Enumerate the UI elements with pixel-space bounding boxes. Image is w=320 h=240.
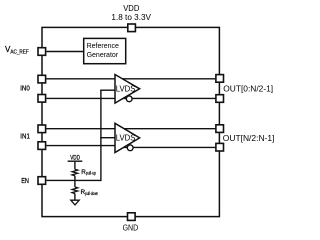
wire IN0 positive line xyxy=(46,78,215,80)
pin IN1 positive xyxy=(38,125,46,133)
VDD rail for pull-up xyxy=(68,155,83,170)
wire OUT row2 negative line output side xyxy=(122,146,215,148)
resistor R_pull-up xyxy=(72,169,78,175)
ground symbol xyxy=(71,200,79,205)
svg-text:IN0: IN0 xyxy=(20,83,30,92)
svg-text:OUT[0:N/2-1]: OUT[0:N/2-1] xyxy=(223,84,273,94)
wire EN vertical bus xyxy=(100,90,102,182)
wire resistor junction xyxy=(74,176,76,187)
pin EN xyxy=(38,177,46,185)
svg-text:GND: GND xyxy=(123,223,139,233)
svg-text:LVDS: LVDS xyxy=(116,85,136,94)
svg-text:VDD: VDD xyxy=(70,155,80,162)
svg-text:Rpull-down: Rpull-down xyxy=(81,189,99,196)
wire IN0 negative line xyxy=(46,97,215,99)
svg-text:OUT[N/2:N-1]: OUT[N/2:N-1] xyxy=(223,133,275,143)
pin GND (bottom) xyxy=(128,213,136,221)
svg-text:VDD: VDD xyxy=(123,4,139,13)
reference generator box xyxy=(84,38,126,63)
wire EN tap to buffer U2 xyxy=(100,137,116,139)
pin IN0 positive xyxy=(38,75,46,83)
op-amp buffer U1 (LVDS) xyxy=(115,75,140,104)
pin IN1 negative xyxy=(38,142,46,150)
svg-text:1.8 to 3.3V: 1.8 to 3.3V xyxy=(111,13,151,22)
pin OUT row1 negative xyxy=(216,95,224,103)
svg-text:Reference: Reference xyxy=(87,43,119,50)
pin OUT row2 negative xyxy=(216,143,224,151)
svg-text:EN: EN xyxy=(21,176,29,185)
op-amp buffer U2 (LVDS) xyxy=(115,123,140,152)
pin IN0 negative xyxy=(38,95,46,103)
pin OUT row1 positive xyxy=(216,75,224,83)
wire EN tap to buffer U1 xyxy=(100,89,116,91)
wire to ground xyxy=(74,194,76,201)
inversion bubble U2 xyxy=(127,145,133,151)
wire V_AC_REF to reference generator xyxy=(46,51,84,53)
svg-text:Rpull-up: Rpull-up xyxy=(81,169,96,176)
pin OUT row2 positive xyxy=(216,125,224,133)
wire IN1 positive line xyxy=(46,128,215,130)
chip outline box xyxy=(42,27,219,216)
svg-text:Generator: Generator xyxy=(87,52,119,59)
wire IN1 negative line input side xyxy=(46,145,127,147)
wire EN horizontal xyxy=(46,179,101,181)
svg-text:IN1: IN1 xyxy=(20,132,30,141)
pin VDD (top) xyxy=(128,24,136,32)
resistor R_pull-down xyxy=(72,187,78,194)
svg-text:LVDS: LVDS xyxy=(116,134,136,143)
pin V_AC_REF xyxy=(38,48,46,56)
inversion bubble U1 xyxy=(126,96,132,102)
